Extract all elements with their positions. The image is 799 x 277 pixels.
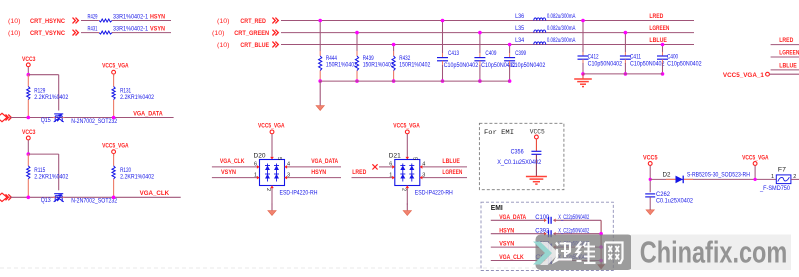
svg-text:0.082u/300mA: 0.082u/300mA (547, 14, 576, 20)
svg-text:CRT_HSYNC: CRT_HSYNC (30, 18, 65, 25)
svg-text:VCC5_VGA: VCC5_VGA (742, 154, 769, 161)
svg-text:LGREEN: LGREEN (649, 25, 669, 32)
svg-text:VSYN: VSYN (150, 25, 165, 32)
svg-text:R429: R429 (88, 14, 98, 20)
svg-text:C400: C400 (667, 55, 679, 61)
svg-text:(10): (10) (212, 31, 225, 37)
svg-text:Q15: Q15 (41, 118, 52, 124)
svg-text:_F-SMD750: _F-SMD750 (759, 186, 791, 192)
svg-text:S-RB520S-30_SOD523-RH: S-RB520S-30_SOD523-RH (687, 173, 750, 179)
svg-text:5: 5 (276, 157, 282, 160)
svg-text:R431: R431 (88, 26, 98, 32)
svg-text:CRT_VSYNC: CRT_VSYNC (30, 30, 65, 37)
svg-text:150R1%0402: 150R1%0402 (399, 63, 431, 69)
svg-text:33R1%0402-1: 33R1%0402-1 (113, 26, 149, 32)
svg-text:1: 1 (771, 174, 774, 180)
svg-text:EMI: EMI (491, 203, 503, 212)
svg-text:C392: C392 (535, 228, 550, 234)
svg-text:CRT_RED: CRT_RED (240, 18, 266, 25)
svg-text:2.2KR1%0402: 2.2KR1%0402 (120, 175, 155, 181)
svg-text:2.2KR1%0402: 2.2KR1%0402 (120, 95, 155, 101)
svg-text:F7: F7 (778, 168, 787, 174)
svg-text:(10): (10) (8, 19, 21, 25)
svg-text:C10p50N0402: C10p50N0402 (511, 63, 546, 69)
svg-text:6: 6 (389, 162, 392, 168)
svg-text:LBLUE: LBLUE (649, 37, 667, 44)
svg-text:4: 4 (287, 162, 290, 168)
svg-text:LBLUE: LBLUE (779, 63, 797, 70)
svg-text:1: 1 (254, 172, 257, 178)
svg-text:CRT_GREEN: CRT_GREEN (234, 30, 269, 37)
svg-text:X_C0.1u25X0402: X_C0.1u25X0402 (497, 160, 542, 166)
svg-text:R439: R439 (363, 56, 375, 62)
svg-text:R120: R120 (120, 168, 132, 174)
svg-text:R432: R432 (399, 56, 411, 62)
svg-text:6: 6 (254, 162, 257, 168)
svg-text:C409: C409 (485, 51, 497, 57)
svg-text:HSYN: HSYN (150, 13, 165, 20)
svg-text:0.082u/300mA: 0.082u/300mA (547, 26, 576, 32)
svg-text:C262: C262 (656, 192, 671, 198)
svg-text:C10p50N0402: C10p50N0402 (588, 62, 623, 68)
svg-text:C10p50N0402: C10p50N0402 (444, 63, 479, 69)
svg-text:5: 5 (411, 157, 417, 160)
svg-text:VCC5_VGA: VCC5_VGA (102, 63, 129, 70)
svg-text:2: 2 (265, 188, 271, 191)
svg-text:For EMI: For EMI (484, 129, 514, 137)
svg-text:C411: C411 (630, 55, 642, 61)
svg-text:HSYN: HSYN (311, 169, 326, 176)
svg-text:D2: D2 (663, 173, 672, 179)
svg-text:X_C22p50N0402: X_C22p50N0402 (558, 228, 589, 234)
svg-text:Q13: Q13 (41, 198, 52, 204)
svg-text:L34: L34 (515, 38, 525, 44)
svg-text:2: 2 (400, 188, 406, 191)
svg-text:D21: D21 (389, 154, 402, 160)
svg-text:VCC5_VGA: VCC5_VGA (102, 143, 129, 150)
svg-text:N-2N7002_SOT232: N-2N7002_SOT232 (71, 199, 118, 205)
svg-text:150R1%0402: 150R1%0402 (326, 63, 358, 69)
svg-text:VGA_DATA: VGA_DATA (133, 110, 163, 117)
svg-text:4: 4 (422, 162, 425, 168)
svg-text:R131: R131 (120, 89, 132, 95)
svg-text:VCC5_VGA: VCC5_VGA (258, 123, 285, 130)
svg-text:C0.1u25X0402: C0.1u25X0402 (656, 198, 694, 204)
svg-text:VCC3: VCC3 (22, 56, 36, 63)
svg-text:D20: D20 (254, 154, 267, 160)
svg-text:2.2KR1%0402: 2.2KR1%0402 (34, 95, 69, 101)
svg-text:3: 3 (287, 172, 290, 178)
svg-text:R444: R444 (326, 56, 338, 62)
svg-text:LRED: LRED (779, 37, 793, 44)
svg-text:LBLUE: LBLUE (442, 158, 460, 165)
svg-text:(10): (10) (217, 19, 230, 25)
svg-text:VGA_CLK: VGA_CLK (220, 158, 245, 165)
svg-text:L35: L35 (515, 26, 525, 32)
svg-text:150R1%0402: 150R1%0402 (363, 63, 395, 69)
svg-text:VCC3: VCC3 (22, 129, 36, 136)
svg-text:1: 1 (389, 172, 392, 178)
svg-text:R129: R129 (34, 89, 46, 95)
svg-text:LGREEN: LGREEN (779, 50, 799, 57)
svg-text:ESD-IP4220-RH: ESD-IP4220-RH (415, 191, 453, 197)
svg-text:Chinafix.com: Chinafix.com (640, 234, 788, 269)
svg-text:0.082u/300mA: 0.082u/300mA (547, 38, 576, 44)
svg-text:LRED: LRED (649, 13, 663, 20)
svg-text:C10p50N0402: C10p50N0402 (667, 62, 702, 68)
svg-text:ESD-IP4220-RH: ESD-IP4220-RH (280, 191, 318, 197)
svg-text:(10): (10) (217, 43, 230, 49)
svg-text:VCC5: VCC5 (530, 129, 545, 136)
svg-text:C100: C100 (535, 215, 550, 221)
svg-text:VCC5_VGA_1: VCC5_VGA_1 (723, 72, 764, 79)
svg-text:33R1%0402-1: 33R1%0402-1 (113, 14, 149, 20)
svg-text:C10p50N0402: C10p50N0402 (630, 62, 665, 68)
svg-text:C413: C413 (448, 51, 460, 57)
svg-text:VGA_CLK: VGA_CLK (140, 190, 170, 197)
svg-text:C356: C356 (511, 150, 525, 156)
svg-text:(10): (10) (8, 31, 21, 37)
svg-text:VCC5_VGA: VCC5_VGA (393, 123, 420, 130)
svg-text:LRED: LRED (352, 169, 366, 176)
svg-text:VCC5: VCC5 (643, 154, 658, 161)
svg-text:C399: C399 (515, 51, 527, 57)
svg-text:VGA_DATA: VGA_DATA (311, 158, 338, 165)
svg-text:VSYN: VSYN (221, 169, 236, 176)
svg-text:C412: C412 (588, 55, 600, 61)
svg-text:X_C22p50N0402: X_C22p50N0402 (558, 215, 589, 221)
svg-text:2.2KR1%0402: 2.2KR1%0402 (34, 175, 69, 181)
svg-text:CRT_BLUE: CRT_BLUE (240, 42, 269, 49)
svg-text:N-2N7002_SOT232: N-2N7002_SOT232 (71, 119, 118, 125)
svg-text:LGREEN: LGREEN (442, 169, 462, 176)
svg-text:L36: L36 (515, 14, 525, 20)
svg-text:R115: R115 (34, 168, 46, 174)
svg-text:3: 3 (422, 172, 425, 178)
